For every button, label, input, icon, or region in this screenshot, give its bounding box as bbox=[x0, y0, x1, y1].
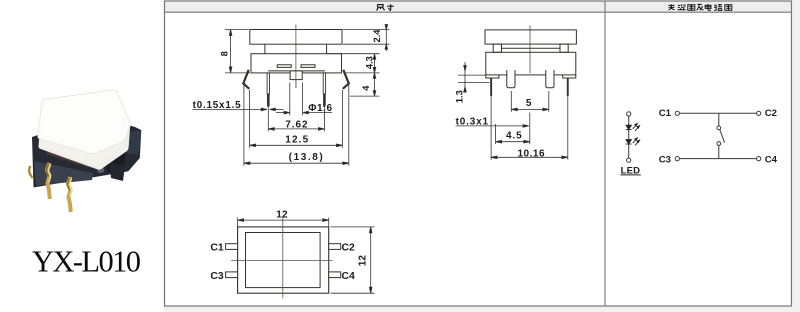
cap foot left bbox=[493, 44, 501, 52]
LED D1 bbox=[626, 124, 640, 132]
contact pin left bbox=[507, 70, 515, 88]
wire to switch bbox=[718, 113, 720, 126]
center line vertical bbox=[282, 218, 284, 299]
bracket line bbox=[502, 47, 561, 49]
pin front-mid highlight bbox=[69, 179, 71, 197]
body outline bbox=[486, 52, 576, 75]
svg-text:C1: C1 bbox=[659, 108, 672, 119]
dimension (13.8) bbox=[244, 85, 349, 166]
svg-text:1.3: 1.3 bbox=[454, 90, 464, 103]
node LED bottom bbox=[627, 158, 631, 162]
pin front-mid bbox=[68, 177, 71, 212]
pin C3 bbox=[226, 272, 238, 278]
svg-text:C2: C2 bbox=[342, 243, 356, 254]
pin front-left shadow edge bbox=[46, 164, 48, 177]
left bottom tab bbox=[486, 75, 499, 78]
svg-text:5: 5 bbox=[526, 98, 532, 109]
keycap top face bbox=[38, 90, 130, 154]
svg-text:12: 12 bbox=[358, 255, 369, 267]
right bottom tab bbox=[563, 75, 576, 78]
led leg right bbox=[567, 78, 569, 96]
pin front-mid shadow edge bbox=[67, 178, 69, 191]
dimension 1.3 bbox=[458, 62, 490, 92]
contact pin right bbox=[546, 70, 554, 88]
keycap skirt (lower white rim) bbox=[38, 90, 130, 170]
svg-text:2.4: 2.4 bbox=[372, 29, 382, 43]
leg left bbox=[267, 73, 270, 109]
base right block shade bbox=[127, 130, 141, 155]
dimension 4.5 bbox=[496, 113, 530, 145]
dimension 2.4 (cap height right) bbox=[343, 25, 390, 51]
pin front-left bbox=[47, 163, 50, 199]
node LED top bbox=[627, 112, 631, 116]
dimension 12 top bbox=[238, 218, 329, 227]
foot right (bent clip) bbox=[343, 70, 349, 89]
svg-text:4.3: 4.3 bbox=[365, 56, 375, 69]
keycap top sheen bbox=[43, 95, 124, 149]
switch contact bottom bbox=[717, 142, 721, 146]
body outline bbox=[251, 54, 342, 73]
base front face highlight bbox=[34, 161, 93, 186]
dimension 4.3 (body height right) bbox=[328, 54, 380, 73]
slot left bbox=[277, 65, 291, 68]
neck left bbox=[264, 44, 266, 54]
center line horizontal bbox=[231, 260, 332, 262]
header title 尺寸 (drawn strokes) bbox=[377, 4, 394, 10]
svg-text:8: 8 bbox=[220, 51, 230, 56]
switch body base (dark housing) bbox=[32, 116, 141, 188]
svg-text:C4: C4 bbox=[342, 271, 356, 282]
dimension 10.16 bbox=[491, 96, 568, 160]
center line bbox=[295, 25, 297, 88]
pin C4 bbox=[329, 272, 341, 278]
pin front-left highlight bbox=[48, 165, 50, 183]
slot right bbox=[301, 65, 315, 68]
dimension 7.62 bbox=[268, 109, 324, 132]
LED indicator chain bbox=[627, 112, 631, 162]
node C2 bbox=[757, 111, 761, 115]
center line bbox=[529, 26, 531, 74]
node C3 bbox=[675, 157, 679, 161]
LED D2 bbox=[626, 138, 640, 146]
base right post shadow bbox=[104, 150, 126, 173]
stem center line over bbox=[295, 71, 297, 88]
svg-text:7.62: 7.62 bbox=[285, 119, 308, 130]
svg-text:4: 4 bbox=[361, 85, 371, 91]
body inner bottom line bbox=[268, 70, 325, 72]
dimension 5 bbox=[511, 91, 549, 112]
header bottom rule bbox=[165, 11, 792, 13]
node C4 bbox=[757, 157, 761, 161]
svg-text:C3: C3 bbox=[210, 271, 224, 282]
pin back-left bbox=[29, 166, 32, 178]
neck right bbox=[326, 44, 328, 54]
base right tab bbox=[110, 163, 125, 181]
cap outline bbox=[250, 30, 342, 45]
switch lever bbox=[720, 130, 725, 143]
leg right bbox=[323, 73, 326, 109]
node C1 bbox=[675, 111, 679, 115]
svg-text:12: 12 bbox=[276, 210, 288, 221]
keycap skirt bright center bbox=[41, 117, 122, 166]
cap outline bbox=[485, 30, 576, 44]
gray margin bottom bbox=[164, 307, 800, 312]
wire C3-C4 bbox=[679, 158, 756, 160]
foot left (bent clip) bbox=[243, 70, 249, 89]
base front slot bbox=[97, 167, 105, 173]
switch contact top bbox=[717, 126, 721, 130]
outer square bbox=[238, 227, 329, 293]
inner square bbox=[246, 233, 321, 288]
svg-text:4.5: 4.5 bbox=[506, 131, 522, 142]
wire bbox=[628, 116, 630, 158]
pin C1 bbox=[226, 244, 238, 250]
svg-text:10.16: 10.16 bbox=[517, 148, 545, 159]
svg-text:C1: C1 bbox=[210, 243, 224, 254]
gray margin right bbox=[793, 0, 800, 312]
svg-text:12.5: 12.5 bbox=[285, 135, 308, 146]
stem bbox=[290, 71, 302, 80]
wire C1-C2 bbox=[679, 112, 756, 114]
table header band bbox=[165, 1, 792, 12]
led leg left bbox=[490, 78, 492, 96]
pin C2 bbox=[329, 244, 341, 250]
dimension 4 (foot height right) bbox=[350, 73, 380, 96]
table outer border bbox=[165, 1, 792, 306]
dimension 12.5 bbox=[250, 90, 343, 148]
svg-text:YX-L010: YX-L010 bbox=[32, 245, 141, 279]
svg-text:C2: C2 bbox=[765, 108, 777, 119]
dimension 12 right bbox=[331, 227, 375, 293]
svg-text:(13.8): (13.8) bbox=[289, 152, 323, 163]
svg-text:C4: C4 bbox=[765, 154, 778, 165]
wire from switch bbox=[718, 145, 720, 158]
column divider bbox=[604, 1, 606, 306]
header title 安装图及电路图 (drawn strokes) bbox=[668, 4, 732, 10]
cap foot right bbox=[560, 44, 568, 52]
svg-text:C3: C3 bbox=[659, 154, 671, 165]
dimension 8 (left height) bbox=[225, 30, 250, 73]
base front brown reflection bbox=[47, 150, 89, 168]
